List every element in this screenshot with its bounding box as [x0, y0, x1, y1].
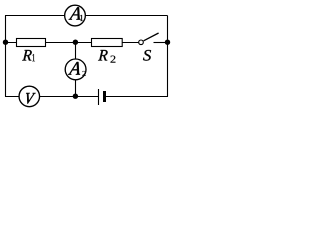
- ammeter A2: [65, 59, 86, 80]
- wire: middle branch row (under R1, R2, up to switch pivot): [6, 42, 140, 44]
- resistor R1: [17, 39, 46, 47]
- wire: ammeter A2 vertical branch: [75, 43, 77, 97]
- label S: [143, 50, 151, 61]
- wire: bottom left of battery: [5, 96, 98, 98]
- node: left junction: [3, 40, 8, 45]
- wire: bottom right of battery: [106, 96, 168, 98]
- node: middle junction: [73, 40, 78, 45]
- node: bottom junction: [73, 94, 78, 99]
- label R1: [22, 50, 35, 61]
- node: right junction: [165, 40, 170, 45]
- battery: long thin plate: [98, 89, 100, 105]
- wire: top horizontal: [5, 15, 168, 17]
- wire: outer loop left vertical: [5, 16, 7, 97]
- label R2: [98, 50, 115, 63]
- ammeter A1: [65, 5, 86, 26]
- switch S pivot: [139, 40, 144, 45]
- resistor R2: [92, 39, 123, 47]
- wire: switch fixed side to right node: [154, 42, 168, 44]
- battery: short thick plate: [103, 91, 106, 102]
- wire: right vertical: [167, 16, 169, 97]
- switch S blade: [144, 33, 159, 41]
- voltmeter V: [19, 86, 40, 107]
